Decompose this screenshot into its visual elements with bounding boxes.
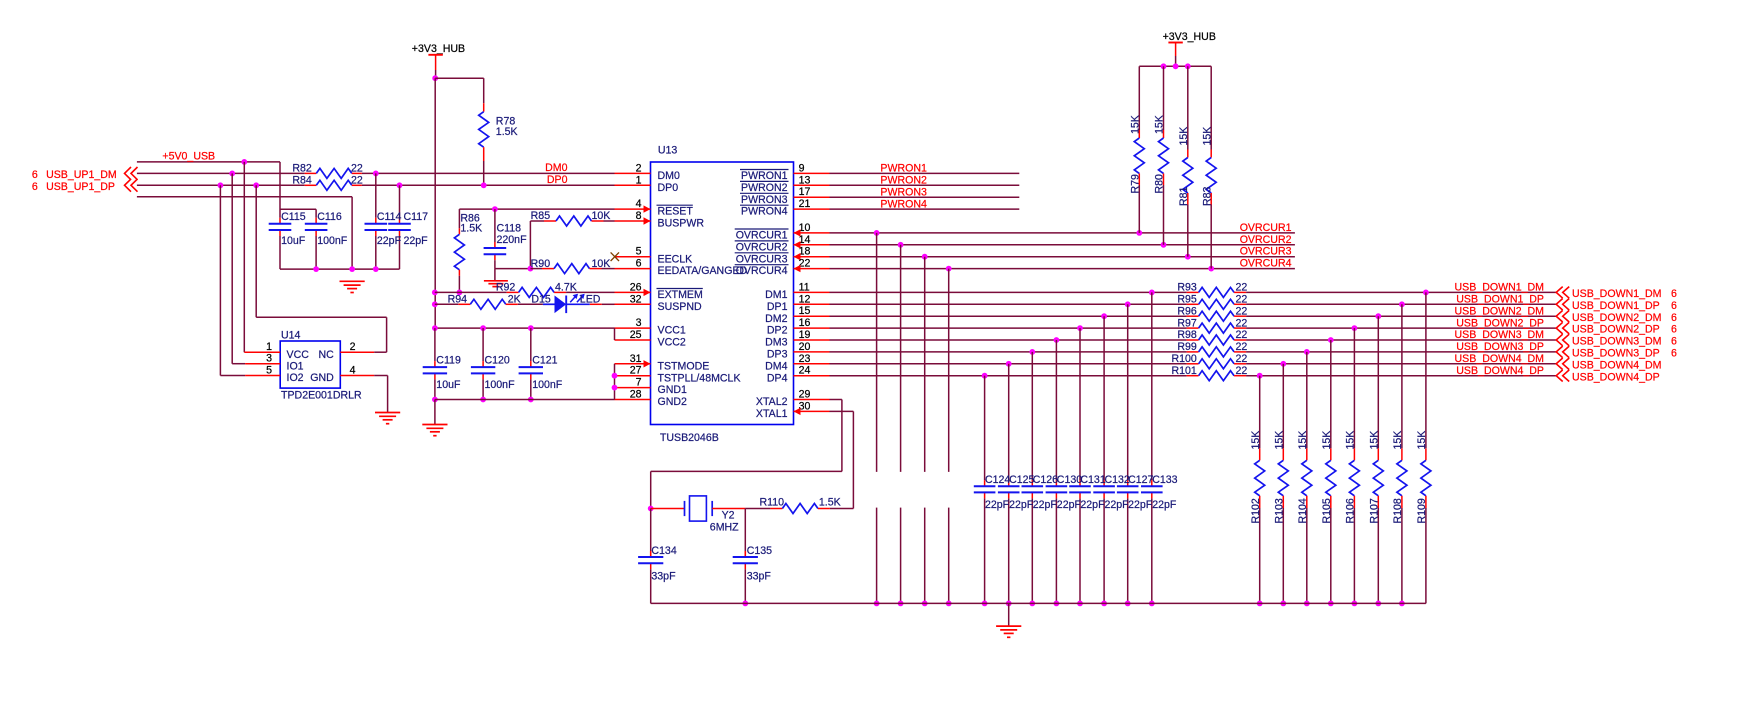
svg-text:6: 6 — [1671, 324, 1677, 336]
svg-text:GND2: GND2 — [658, 396, 688, 408]
svg-text:6: 6 — [1671, 348, 1677, 360]
svg-text:OVRCUR4: OVRCUR4 — [736, 265, 788, 277]
svg-text:11: 11 — [799, 281, 810, 293]
svg-text:USB_DOWN4_DP: USB_DOWN4_DP — [1456, 365, 1544, 377]
svg-text:USB_DOWN1_DP: USB_DOWN1_DP — [1456, 294, 1544, 306]
svg-text:R109: R109 — [1416, 498, 1428, 523]
svg-text:C130: C130 — [1057, 474, 1082, 486]
svg-text:OVRCUR3: OVRCUR3 — [736, 253, 788, 265]
svg-text:12: 12 — [799, 293, 811, 305]
svg-text:R106: R106 — [1345, 498, 1357, 523]
svg-text:USB_DOWN4_DP: USB_DOWN4_DP — [1572, 371, 1660, 383]
svg-text:DP1: DP1 — [767, 301, 788, 313]
svg-text:6: 6 — [1671, 336, 1677, 348]
svg-text:OVRCUR3: OVRCUR3 — [1240, 246, 1292, 258]
svg-text:5: 5 — [636, 246, 642, 258]
svg-text:10uF: 10uF — [281, 235, 306, 247]
svg-text:TUSB2046B: TUSB2046B — [660, 432, 719, 444]
svg-text:USB_DOWN2_DM: USB_DOWN2_DM — [1455, 305, 1544, 317]
svg-text:Y2: Y2 — [722, 510, 735, 522]
svg-text:5: 5 — [266, 365, 272, 377]
svg-text:PWRON4: PWRON4 — [741, 206, 788, 218]
svg-text:100nF: 100nF — [532, 379, 563, 391]
svg-text:24: 24 — [799, 365, 811, 377]
svg-text:22: 22 — [1236, 305, 1248, 317]
svg-text:21: 21 — [799, 198, 811, 210]
svg-text:3: 3 — [636, 317, 642, 329]
svg-text:10uF: 10uF — [436, 379, 461, 391]
svg-text:22pF: 22pF — [1105, 499, 1130, 511]
svg-text:C117: C117 — [404, 211, 429, 223]
svg-text:26: 26 — [630, 281, 642, 293]
svg-text:DP0: DP0 — [547, 174, 568, 186]
svg-text:XTAL1: XTAL1 — [756, 408, 788, 420]
svg-text:15K: 15K — [1130, 115, 1142, 134]
svg-text:R103: R103 — [1274, 498, 1286, 523]
svg-text:C135: C135 — [747, 545, 772, 557]
svg-text:USB_DOWN2_DP: USB_DOWN2_DP — [1456, 317, 1544, 329]
svg-text:USB_UP1_DM: USB_UP1_DM — [46, 169, 117, 181]
svg-text:C124: C124 — [985, 474, 1010, 486]
svg-text:DP3: DP3 — [767, 349, 788, 361]
svg-text:22: 22 — [351, 175, 363, 187]
svg-text:15K: 15K — [1178, 127, 1190, 146]
svg-text:USB_DOWN1_DP: USB_DOWN1_DP — [1572, 300, 1660, 312]
svg-text:15K: 15K — [1154, 115, 1166, 134]
svg-text:8: 8 — [636, 210, 642, 222]
svg-text:C119: C119 — [436, 355, 461, 367]
svg-text:22pF: 22pF — [1128, 499, 1153, 511]
svg-text:22pF: 22pF — [1080, 499, 1105, 511]
svg-text:OVRCUR4: OVRCUR4 — [1240, 258, 1292, 270]
svg-text:220nF: 220nF — [497, 234, 528, 246]
svg-text:GND: GND — [310, 372, 334, 384]
svg-text:USB_DOWN3_DP: USB_DOWN3_DP — [1456, 341, 1544, 353]
svg-text:6: 6 — [32, 169, 38, 181]
svg-text:6: 6 — [1671, 312, 1677, 324]
svg-text:22pF: 22pF — [377, 235, 402, 247]
svg-text:16: 16 — [799, 317, 811, 329]
svg-text:USB_DOWN4_DM: USB_DOWN4_DM — [1455, 353, 1544, 365]
svg-text:15K: 15K — [1297, 431, 1309, 450]
svg-text:R100: R100 — [1171, 353, 1196, 365]
svg-text:22: 22 — [1236, 365, 1248, 377]
svg-text:10K: 10K — [592, 258, 611, 270]
svg-text:100nF: 100nF — [485, 379, 516, 391]
svg-text:C133: C133 — [1152, 474, 1177, 486]
svg-text:22pF: 22pF — [1009, 499, 1034, 511]
svg-text:R104: R104 — [1297, 498, 1309, 523]
svg-text:29: 29 — [799, 389, 811, 401]
svg-text:1.5K: 1.5K — [460, 222, 482, 234]
svg-text:4: 4 — [350, 365, 356, 377]
svg-text:33pF: 33pF — [747, 571, 772, 583]
svg-text:LED: LED — [580, 293, 601, 305]
svg-text:27: 27 — [630, 365, 642, 377]
svg-text:R97: R97 — [1177, 317, 1197, 329]
svg-text:10K: 10K — [592, 210, 611, 222]
svg-text:PWRON2: PWRON2 — [880, 175, 927, 187]
svg-text:PWRON1: PWRON1 — [741, 170, 788, 182]
svg-text:IO2: IO2 — [287, 372, 304, 384]
svg-text:17: 17 — [799, 186, 811, 198]
svg-text:7: 7 — [636, 377, 642, 389]
svg-text:C125: C125 — [1009, 474, 1034, 486]
svg-text:PWRON3: PWRON3 — [741, 194, 788, 206]
svg-text:C121: C121 — [532, 355, 557, 367]
svg-text:R98: R98 — [1177, 329, 1197, 341]
svg-text:DM0: DM0 — [658, 170, 680, 182]
svg-text:15K: 15K — [1416, 431, 1428, 450]
svg-text:C120: C120 — [485, 355, 510, 367]
svg-text:R96: R96 — [1177, 305, 1197, 317]
svg-text:22pF: 22pF — [404, 235, 429, 247]
svg-text:22: 22 — [1236, 294, 1248, 306]
svg-text:C132: C132 — [1105, 474, 1130, 486]
svg-text:OVRCUR2: OVRCUR2 — [1240, 234, 1292, 246]
svg-text:USB_DOWN1_DM: USB_DOWN1_DM — [1572, 288, 1661, 300]
svg-text:USB_DOWN3_DP: USB_DOWN3_DP — [1572, 348, 1660, 360]
svg-text:U14: U14 — [281, 329, 301, 341]
svg-text:4.7K: 4.7K — [555, 282, 577, 294]
svg-text:22: 22 — [1236, 353, 1248, 365]
svg-text:6: 6 — [32, 181, 38, 193]
svg-text:R101: R101 — [1171, 365, 1196, 377]
svg-text:R81: R81 — [1178, 186, 1190, 206]
svg-text:13: 13 — [799, 174, 811, 186]
svg-text:C126: C126 — [1033, 474, 1058, 486]
svg-text:20: 20 — [799, 341, 811, 353]
svg-text:15K: 15K — [1369, 431, 1381, 450]
svg-text:EEDATA/GANGED: EEDATA/GANGED — [658, 265, 748, 277]
svg-text:R90: R90 — [531, 258, 551, 270]
svg-text:R110: R110 — [760, 496, 785, 508]
svg-text:C127: C127 — [1128, 474, 1153, 486]
svg-text:OVRCUR1: OVRCUR1 — [1240, 222, 1292, 234]
svg-text:15: 15 — [799, 305, 811, 317]
svg-text:NC: NC — [318, 349, 334, 361]
svg-text:2: 2 — [636, 162, 642, 174]
svg-text:R79: R79 — [1130, 174, 1142, 194]
svg-text:R82: R82 — [292, 163, 312, 175]
svg-text:U13: U13 — [658, 144, 678, 156]
svg-text:GND1: GND1 — [658, 384, 688, 396]
svg-text:USB_DOWN3_DM: USB_DOWN3_DM — [1455, 329, 1544, 341]
svg-text:DM4: DM4 — [765, 360, 787, 372]
svg-text:22: 22 — [1236, 329, 1248, 341]
svg-text:22: 22 — [1236, 317, 1248, 329]
svg-text:19: 19 — [799, 329, 811, 341]
svg-text:22: 22 — [351, 163, 363, 175]
svg-text:R95: R95 — [1177, 294, 1197, 306]
svg-text:C131: C131 — [1080, 474, 1105, 486]
svg-text:C115: C115 — [281, 211, 306, 223]
svg-text:TSTPLL/48MCLK: TSTPLL/48MCLK — [658, 372, 741, 384]
svg-text:6: 6 — [1671, 288, 1677, 300]
svg-text:OVRCUR2: OVRCUR2 — [736, 241, 788, 253]
svg-text:R92: R92 — [496, 282, 516, 294]
svg-text:23: 23 — [799, 353, 811, 365]
svg-text:15K: 15K — [1345, 431, 1357, 450]
svg-text:22pF: 22pF — [1057, 499, 1082, 511]
svg-text:USB_DOWN2_DP: USB_DOWN2_DP — [1572, 324, 1660, 336]
svg-text:DM1: DM1 — [765, 289, 787, 301]
svg-text:31: 31 — [630, 353, 642, 365]
svg-text:D15: D15 — [531, 293, 551, 305]
svg-text:C116: C116 — [317, 211, 342, 223]
svg-text:R84: R84 — [292, 175, 312, 187]
svg-text:15K: 15K — [1201, 127, 1213, 146]
svg-text:22: 22 — [1236, 282, 1248, 294]
svg-text:2K: 2K — [508, 293, 521, 305]
svg-text:VCC2: VCC2 — [658, 337, 686, 349]
svg-text:100nF: 100nF — [317, 235, 348, 247]
svg-text:DM2: DM2 — [765, 313, 787, 325]
svg-text:R105: R105 — [1321, 498, 1333, 523]
svg-text:1: 1 — [636, 174, 642, 186]
svg-text:22: 22 — [1236, 341, 1248, 353]
svg-text:EXTMEM: EXTMEM — [658, 289, 703, 301]
svg-text:R93: R93 — [1177, 282, 1197, 294]
svg-text:TPD2E001DRLR: TPD2E001DRLR — [281, 390, 362, 402]
svg-text:OVRCUR1: OVRCUR1 — [736, 230, 788, 242]
svg-text:1: 1 — [266, 341, 272, 353]
svg-text:15K: 15K — [1274, 431, 1286, 450]
svg-text:USB_UP1_DP: USB_UP1_DP — [46, 181, 115, 193]
svg-text:6: 6 — [1671, 300, 1677, 312]
svg-text:32: 32 — [630, 293, 642, 305]
svg-text:28: 28 — [630, 389, 642, 401]
svg-text:1.5K: 1.5K — [819, 496, 841, 508]
svg-text:6MHZ: 6MHZ — [710, 522, 739, 534]
svg-text:PWRON4: PWRON4 — [880, 198, 927, 210]
svg-text:25: 25 — [630, 329, 642, 341]
svg-text:USB_DOWN4_DM: USB_DOWN4_DM — [1572, 359, 1661, 371]
svg-text:R83: R83 — [1201, 186, 1213, 206]
svg-text:R107: R107 — [1369, 498, 1381, 523]
svg-text:PWRON3: PWRON3 — [880, 187, 927, 199]
svg-text:R85: R85 — [531, 210, 551, 222]
svg-text:4: 4 — [636, 198, 642, 210]
svg-text:XTAL2: XTAL2 — [756, 396, 788, 408]
svg-text:1.5K: 1.5K — [496, 126, 518, 138]
svg-text:R94: R94 — [448, 293, 468, 305]
svg-text:IO1: IO1 — [287, 360, 304, 372]
svg-text:PWRON1: PWRON1 — [880, 163, 927, 175]
svg-text:EECLK: EECLK — [658, 253, 693, 265]
svg-text:SUSPND: SUSPND — [658, 301, 702, 313]
svg-text:USB_DOWN2_DM: USB_DOWN2_DM — [1572, 312, 1661, 324]
svg-text:15K: 15K — [1321, 431, 1333, 450]
svg-text:USB_DOWN3_DM: USB_DOWN3_DM — [1572, 336, 1661, 348]
svg-text:6: 6 — [636, 258, 642, 270]
svg-text:VCC1: VCC1 — [658, 325, 686, 337]
svg-text:C118: C118 — [497, 222, 522, 234]
svg-text:USB_DOWN1_DM: USB_DOWN1_DM — [1455, 282, 1544, 294]
svg-text:R80: R80 — [1154, 174, 1166, 194]
svg-text:3: 3 — [266, 353, 272, 365]
svg-text:DP4: DP4 — [767, 372, 788, 384]
svg-text:2: 2 — [350, 341, 356, 353]
svg-text:PWRON2: PWRON2 — [741, 182, 788, 194]
svg-text:VCC: VCC — [287, 349, 310, 361]
svg-text:BUSPWR: BUSPWR — [658, 218, 705, 230]
svg-text:22pF: 22pF — [1152, 499, 1177, 511]
svg-text:C114: C114 — [377, 211, 402, 223]
svg-text:15K: 15K — [1250, 431, 1262, 450]
svg-text:9: 9 — [799, 162, 805, 174]
svg-text:22pF: 22pF — [985, 499, 1010, 511]
svg-text:TSTMODE: TSTMODE — [658, 360, 710, 372]
svg-text:+5V0_USB: +5V0_USB — [162, 150, 215, 162]
svg-text:+3V3_HUB: +3V3_HUB — [412, 43, 465, 55]
svg-text:R108: R108 — [1392, 498, 1404, 523]
svg-text:R99: R99 — [1177, 341, 1197, 353]
svg-text:15K: 15K — [1392, 431, 1404, 450]
svg-text:22pF: 22pF — [1033, 499, 1058, 511]
svg-text:DP0: DP0 — [658, 182, 679, 194]
svg-text:R102: R102 — [1250, 498, 1262, 523]
svg-text:+3V3_HUB: +3V3_HUB — [1163, 31, 1216, 43]
svg-text:C134: C134 — [651, 545, 676, 557]
svg-text:DM0: DM0 — [545, 162, 567, 174]
svg-text:33pF: 33pF — [651, 571, 676, 583]
svg-text:RESET: RESET — [658, 206, 694, 218]
svg-text:DP2: DP2 — [767, 325, 788, 337]
svg-text:DM3: DM3 — [765, 337, 787, 349]
